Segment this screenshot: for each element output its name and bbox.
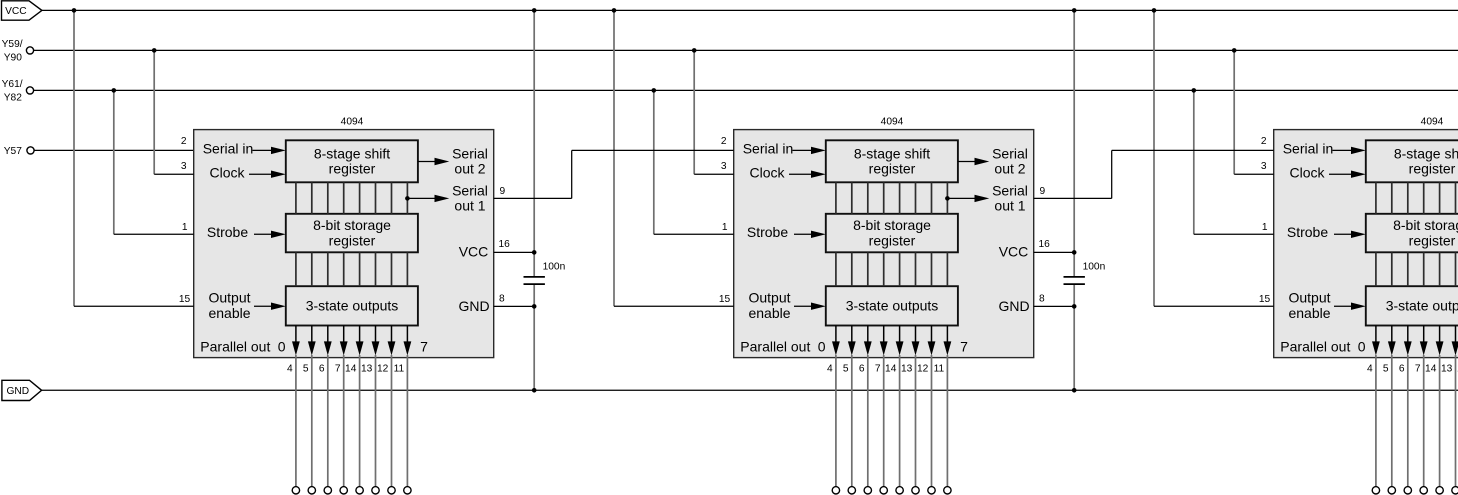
svg-text:9: 9 bbox=[500, 186, 506, 197]
svg-text:7: 7 bbox=[960, 338, 968, 354]
svg-text:3: 3 bbox=[721, 161, 727, 172]
svg-text:VCC: VCC bbox=[459, 244, 489, 260]
wire Y59/Y90 rail bbox=[34, 49, 1458, 51]
svg-text:Strobe: Strobe bbox=[207, 224, 248, 240]
wire U1 pin 3 stub bbox=[154, 173, 194, 175]
wire U2 pin 15 stub bbox=[614, 305, 734, 307]
wire U3 pin 3 stub bbox=[1234, 173, 1274, 175]
wire U3 parallel out bit 3 bbox=[1423, 355, 1425, 487]
wire U1 pin 1 stub bbox=[114, 233, 194, 235]
wire VCC to U2 output enable bbox=[613, 10, 615, 306]
svg-text:7: 7 bbox=[1415, 364, 1421, 375]
wire U2 parallel out bit 5 bbox=[915, 355, 917, 487]
IC U3 4094 outer box bbox=[1274, 130, 1458, 358]
wire U3 parallel out bit 0 bbox=[1375, 355, 1377, 487]
svg-text:15: 15 bbox=[719, 294, 731, 305]
U3 8-stage shift register box bbox=[1366, 140, 1458, 182]
wire U1 parallel out bit 2 bbox=[327, 355, 329, 487]
svg-text:2: 2 bbox=[721, 136, 727, 147]
wire VCC to U3 output enable bbox=[1153, 10, 1155, 306]
svg-text:Y61/: Y61/ bbox=[2, 79, 23, 90]
svg-text:14: 14 bbox=[345, 364, 357, 375]
svg-text:GND: GND bbox=[6, 386, 29, 397]
svg-text:Serial: Serial bbox=[452, 183, 488, 199]
svg-text:Output: Output bbox=[748, 290, 790, 306]
junction VCC rail bbox=[72, 8, 77, 13]
wire U3 pin 15 stub bbox=[1154, 305, 1274, 307]
U2 internal bus lines bbox=[835, 182, 837, 214]
svg-text:6: 6 bbox=[859, 364, 865, 375]
svg-text:register: register bbox=[1409, 232, 1456, 248]
svg-text:14: 14 bbox=[885, 364, 897, 375]
svg-text:Clock: Clock bbox=[1289, 165, 1325, 181]
wire U2 serial out 1 to next serial in bbox=[1034, 197, 1112, 199]
svg-text:GND: GND bbox=[458, 298, 489, 314]
wire U2 pin 1 stub bbox=[654, 233, 734, 235]
wire VCC to U1 output enable bbox=[73, 10, 75, 306]
svg-text:enable: enable bbox=[208, 305, 250, 321]
junction Y61 rail bbox=[112, 88, 117, 93]
svg-text:3: 3 bbox=[1261, 161, 1267, 172]
wire VCC rail to C1 bbox=[533, 10, 535, 276]
svg-text:15: 15 bbox=[1259, 294, 1271, 305]
svg-text:16: 16 bbox=[499, 239, 511, 250]
wire U1 pin 8 to GND bbox=[494, 305, 535, 307]
svg-text:8-stage shift: 8-stage shift bbox=[314, 145, 390, 161]
svg-text:Strobe: Strobe bbox=[747, 224, 788, 240]
svg-text:11: 11 bbox=[394, 364, 405, 375]
svg-text:Strobe: Strobe bbox=[1287, 224, 1328, 240]
svg-text:register: register bbox=[329, 161, 376, 177]
svg-text:VCC: VCC bbox=[999, 244, 1029, 260]
junction Y59 rail bbox=[152, 48, 157, 53]
junction GND rail at cap bbox=[532, 388, 537, 393]
svg-text:8-bit storage: 8-bit storage bbox=[853, 217, 931, 233]
IC U2 4094 outer box bbox=[734, 130, 1034, 358]
power tag VCC bbox=[2, 1, 42, 20]
svg-text:13: 13 bbox=[361, 364, 373, 375]
svg-text:out 1: out 1 bbox=[454, 198, 485, 214]
svg-text:7: 7 bbox=[335, 364, 341, 375]
svg-text:8-bit storage: 8-bit storage bbox=[313, 217, 391, 233]
wire Y59/Y90 to U3 clock bbox=[1233, 50, 1235, 174]
U2 serial out 1 tap bbox=[947, 197, 974, 199]
svg-text:Y82: Y82 bbox=[4, 93, 22, 104]
wire U1 pin 15 stub bbox=[74, 305, 194, 307]
svg-text:3-state outputs: 3-state outputs bbox=[846, 298, 939, 314]
svg-text:2: 2 bbox=[181, 136, 187, 147]
svg-text:16: 16 bbox=[1039, 239, 1051, 250]
wire U3 parallel out bit 5 bbox=[1455, 355, 1457, 487]
svg-text:Output: Output bbox=[208, 290, 250, 306]
svg-text:Y59/: Y59/ bbox=[2, 39, 23, 50]
U3 8-bit storage register box bbox=[1366, 214, 1458, 253]
svg-text:0: 0 bbox=[818, 338, 826, 354]
U2 8-bit storage register box bbox=[826, 214, 958, 253]
wire U2 parallel out bit 3 bbox=[883, 355, 885, 487]
wire U2 parallel out bit 1 bbox=[851, 355, 853, 487]
svg-text:15: 15 bbox=[179, 294, 191, 305]
svg-text:Serial in: Serial in bbox=[743, 141, 794, 157]
svg-text:4: 4 bbox=[827, 364, 833, 375]
svg-text:8: 8 bbox=[1039, 294, 1045, 305]
junction VCC rail bbox=[612, 8, 617, 13]
wire U1 parallel out bit 6 bbox=[391, 355, 393, 487]
svg-text:out 2: out 2 bbox=[994, 161, 1025, 177]
svg-text:Clock: Clock bbox=[749, 165, 785, 181]
junction VCC rail at cap bbox=[1072, 8, 1077, 13]
junction pin16 to cap line bbox=[532, 250, 537, 255]
svg-text:6: 6 bbox=[1399, 364, 1405, 375]
svg-text:Serial: Serial bbox=[452, 145, 488, 161]
IC U1 4094 outer box bbox=[194, 130, 494, 358]
U2 8-stage shift register box bbox=[826, 140, 958, 182]
wire U2 pin 3 stub bbox=[694, 173, 734, 175]
svg-text:100n: 100n bbox=[543, 262, 566, 273]
svg-text:enable: enable bbox=[748, 305, 790, 321]
svg-text:2: 2 bbox=[1261, 136, 1267, 147]
svg-text:1: 1 bbox=[182, 222, 188, 233]
wire Y59/Y90 to U1 clock bbox=[153, 50, 155, 174]
wire U1 parallel out bit 4 bbox=[359, 355, 361, 487]
junction pin8 to cap line bbox=[1072, 304, 1077, 309]
junction Y61 rail bbox=[652, 88, 657, 93]
svg-text:5: 5 bbox=[303, 364, 309, 375]
junction U1 serial out tap bbox=[405, 196, 410, 201]
svg-text:Y90: Y90 bbox=[4, 53, 22, 64]
svg-text:Parallel out: Parallel out bbox=[740, 338, 810, 354]
U1 internal bus lines bbox=[295, 182, 297, 214]
svg-text:3: 3 bbox=[181, 161, 187, 172]
svg-text:Output: Output bbox=[1288, 290, 1330, 306]
svg-text:register: register bbox=[869, 161, 916, 177]
svg-text:0: 0 bbox=[278, 338, 286, 354]
svg-text:5: 5 bbox=[1383, 364, 1389, 375]
svg-text:8-stage shift: 8-stage shift bbox=[854, 145, 930, 161]
svg-text:1: 1 bbox=[722, 222, 728, 233]
wire U2 pin 8 to GND bbox=[1034, 305, 1075, 307]
wire U3 parallel out bit 2 bbox=[1407, 355, 1409, 487]
svg-text:out 1: out 1 bbox=[994, 198, 1025, 214]
terminal Y61/Y82 bbox=[26, 87, 33, 94]
wire U3 parallel out bit 4 bbox=[1439, 355, 1441, 487]
wire U2 parallel out bit 7 bbox=[946, 355, 948, 487]
junction Y61 rail bbox=[1192, 88, 1197, 93]
wire GND rail bbox=[42, 389, 1458, 391]
svg-text:4094: 4094 bbox=[1421, 117, 1444, 128]
wire Y59/Y90 to U2 clock bbox=[693, 50, 695, 174]
svg-text:1: 1 bbox=[1262, 222, 1268, 233]
svg-text:4: 4 bbox=[287, 364, 293, 375]
svg-text:Y57: Y57 bbox=[4, 146, 22, 157]
U1 3-state outputs box bbox=[286, 286, 418, 325]
svg-text:4094: 4094 bbox=[881, 117, 904, 128]
wire Y61/Y82 rail bbox=[34, 89, 1458, 91]
wire Y61/Y82 to U3 strobe bbox=[1193, 90, 1195, 234]
wire U2 pin 16 to VCC bbox=[1034, 251, 1075, 253]
U2 parallel output arrows and pins bbox=[835, 326, 837, 343]
svg-text:3-state outputs: 3-state outputs bbox=[306, 298, 399, 314]
svg-text:VCC: VCC bbox=[5, 6, 27, 17]
svg-text:100n: 100n bbox=[1083, 262, 1106, 273]
svg-text:14: 14 bbox=[1425, 364, 1437, 375]
wire VCC rail to C2 bbox=[1073, 10, 1075, 276]
svg-text:12: 12 bbox=[917, 364, 929, 375]
svg-text:register: register bbox=[329, 232, 376, 248]
terminal Y59/Y90 bbox=[26, 47, 33, 54]
junction U2 serial out tap bbox=[945, 196, 950, 201]
wire C1 to GND rail bbox=[533, 285, 535, 390]
svg-text:6: 6 bbox=[319, 364, 325, 375]
U1 parallel output arrows and pins bbox=[295, 326, 297, 343]
junction GND rail at cap bbox=[1072, 388, 1077, 393]
wire U2 parallel out bit 0 bbox=[835, 355, 837, 487]
svg-text:13: 13 bbox=[1441, 364, 1453, 375]
wire C2 to GND rail bbox=[1073, 285, 1075, 390]
U1 serial out 2 arrow bbox=[418, 161, 435, 163]
svg-text:Serial: Serial bbox=[992, 145, 1028, 161]
svg-text:out 2: out 2 bbox=[454, 161, 485, 177]
junction pin16 to cap line bbox=[1072, 250, 1077, 255]
wire Y61/Y82 to U2 strobe bbox=[653, 90, 655, 234]
svg-text:Serial in: Serial in bbox=[1283, 141, 1334, 157]
junction VCC rail bbox=[1152, 8, 1157, 13]
svg-text:7: 7 bbox=[875, 364, 881, 375]
U3 3-state outputs box bbox=[1366, 286, 1458, 325]
wire U1 parallel out bit 3 bbox=[343, 355, 345, 487]
svg-text:9: 9 bbox=[1040, 186, 1046, 197]
svg-text:12: 12 bbox=[377, 364, 389, 375]
U1 serial out 1 tap bbox=[407, 197, 434, 199]
svg-text:8-stage shift: 8-stage shift bbox=[1394, 145, 1458, 161]
terminal Y57 bbox=[27, 147, 34, 154]
wire U1 parallel out bit 1 bbox=[311, 355, 313, 487]
svg-text:13: 13 bbox=[901, 364, 913, 375]
svg-text:enable: enable bbox=[1288, 305, 1330, 321]
wire U3 pin 1 stub bbox=[1194, 233, 1274, 235]
svg-text:7: 7 bbox=[420, 338, 428, 354]
U2 3-state outputs box bbox=[826, 286, 958, 325]
wire Y57 to U1 serial in bbox=[34, 149, 194, 151]
wire U1 pin 16 to VCC bbox=[494, 251, 535, 253]
svg-text:Parallel out: Parallel out bbox=[1280, 338, 1350, 354]
U3 parallel output arrows and pins bbox=[1375, 326, 1377, 343]
svg-text:8: 8 bbox=[499, 294, 505, 305]
svg-text:0: 0 bbox=[1358, 338, 1366, 354]
U1 8-bit storage register box bbox=[286, 214, 418, 253]
svg-text:4: 4 bbox=[1367, 364, 1373, 375]
wire U2 parallel out bit 4 bbox=[899, 355, 901, 487]
svg-text:register: register bbox=[1409, 161, 1456, 177]
power tag GND bbox=[2, 380, 42, 400]
svg-text:Parallel out: Parallel out bbox=[200, 338, 270, 354]
svg-text:8-bit storage: 8-bit storage bbox=[1393, 217, 1458, 233]
junction pin8 to cap line bbox=[532, 304, 537, 309]
wire U1 parallel out bit 7 bbox=[406, 355, 408, 487]
U1 8-stage shift register box bbox=[286, 140, 418, 182]
wire Y61/Y82 to U1 strobe bbox=[113, 90, 115, 234]
U3 internal bus lines bbox=[1375, 182, 1377, 214]
svg-text:4094: 4094 bbox=[341, 117, 364, 128]
wire U1 serial out 1 to next serial in bbox=[494, 197, 572, 199]
svg-text:11: 11 bbox=[934, 364, 945, 375]
U2 serial out 2 arrow bbox=[958, 161, 975, 163]
wire U1 parallel out bit 0 bbox=[295, 355, 297, 487]
svg-text:3-state outputs: 3-state outputs bbox=[1386, 298, 1458, 314]
svg-text:GND: GND bbox=[998, 298, 1029, 314]
wire VCC rail bbox=[42, 9, 1458, 11]
junction VCC rail at cap bbox=[532, 8, 537, 13]
svg-text:Serial: Serial bbox=[992, 183, 1028, 199]
wire U2 parallel out bit 6 bbox=[931, 355, 933, 487]
svg-text:5: 5 bbox=[843, 364, 849, 375]
wire U2 parallel out bit 2 bbox=[867, 355, 869, 487]
junction Y59 rail bbox=[692, 48, 697, 53]
wire U3 parallel out bit 1 bbox=[1391, 355, 1393, 487]
svg-text:Serial in: Serial in bbox=[203, 141, 254, 157]
wire U1 parallel out bit 5 bbox=[375, 355, 377, 487]
junction Y59 rail bbox=[1232, 48, 1237, 53]
svg-text:Clock: Clock bbox=[209, 165, 245, 181]
svg-text:register: register bbox=[869, 232, 916, 248]
